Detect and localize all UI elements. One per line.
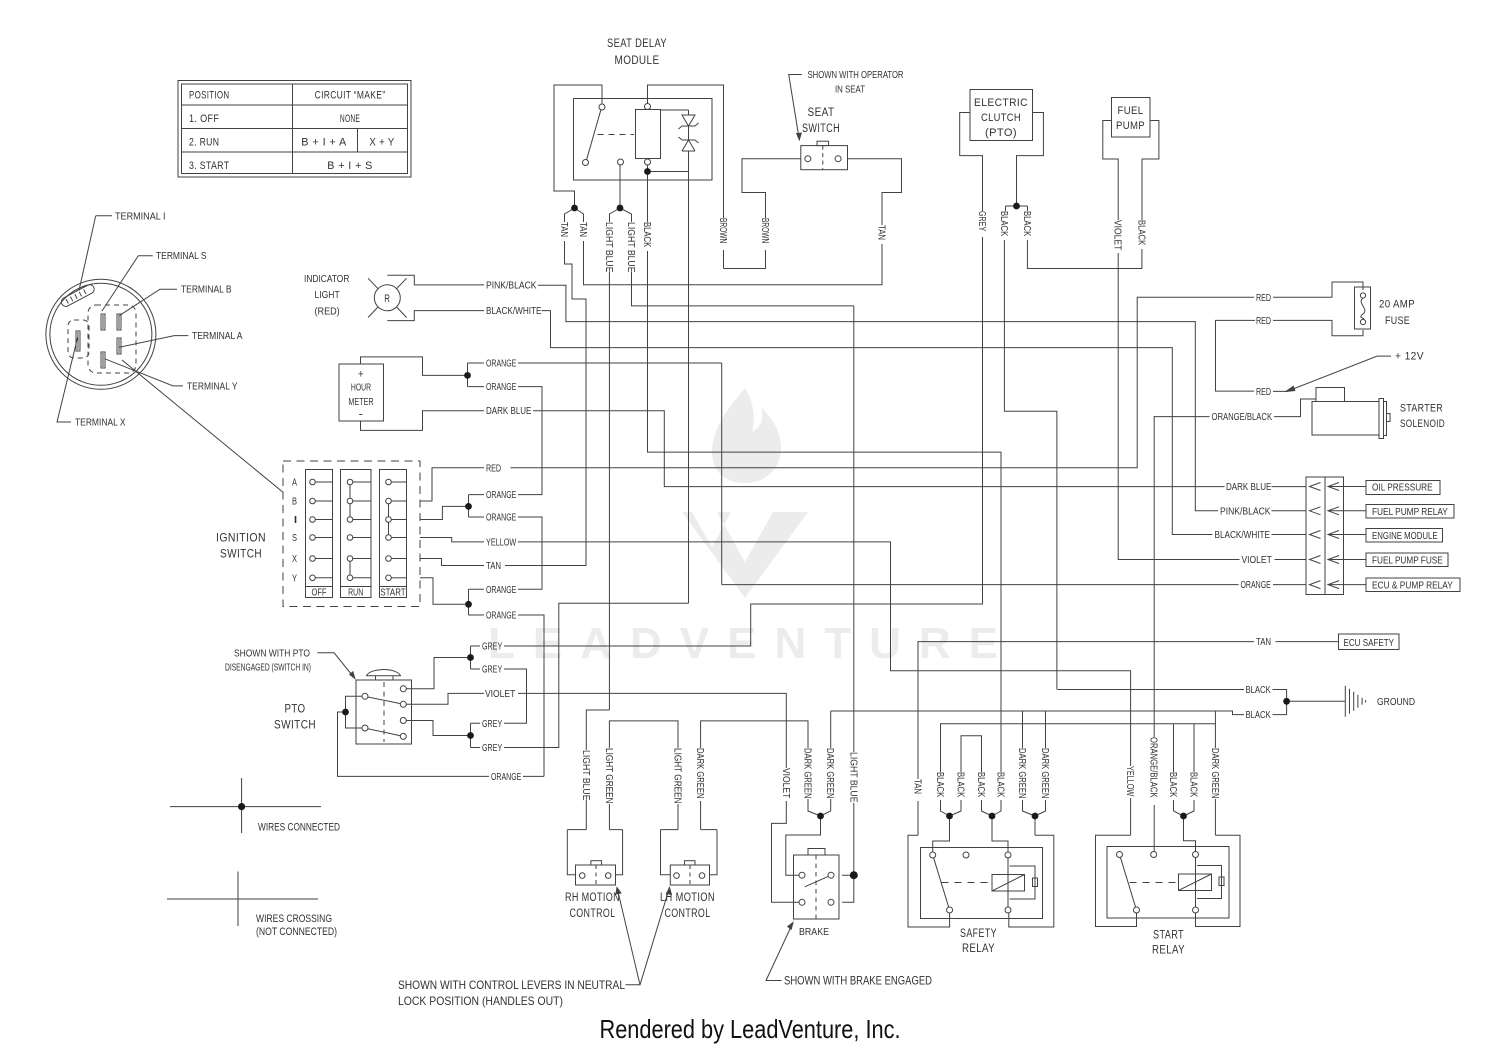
ignition OFF column: [306, 470, 333, 598]
svg-text:YELLOW: YELLOW: [486, 537, 517, 548]
svg-text:FUSE: FUSE: [1385, 315, 1410, 327]
wire zener bottom to grey junction: [648, 152, 689, 180]
wire coil bottom BLACK: [647, 165, 649, 222]
svg-text:SWITCH: SWITCH: [274, 718, 316, 732]
connector arrows: [1310, 483, 1344, 491]
wire clutch black 2 to fuel pump black: [1027, 240, 1142, 269]
safety relay coil: [992, 875, 1025, 892]
brake switch body: [794, 855, 840, 919]
terminal pins dashed housing: [88, 305, 136, 373]
GREY bus to seat module: [504, 180, 689, 748]
RED bus to fuse: [511, 297, 1255, 468]
svg-text:GREY: GREY: [976, 211, 987, 232]
wire RH light green to bracket: [609, 804, 622, 875]
svg-text:CIRCUIT “MAKE”: CIRCUIT “MAKE”: [315, 90, 386, 102]
svg-text:TERMINAL X: TERMINAL X: [75, 418, 126, 429]
wire seat switch left to BROWN loop: [742, 159, 801, 218]
electric clutch bracket: [960, 113, 983, 212]
svg-text:B: B: [292, 497, 297, 508]
wire module switch to TAN dot: [554, 85, 602, 208]
dark green riser start relay: [1214, 711, 1216, 835]
LIGHT BLUE bus from seat module: [632, 272, 854, 306]
svg-text:VIOLET: VIOLET: [485, 689, 515, 700]
wire brake dark green riser to ground bus: [830, 711, 832, 748]
RH motion control switch: [576, 865, 616, 885]
relay switch contacts U1: [599, 104, 605, 110]
svg-text:START: START: [1153, 928, 1184, 942]
ignition switch dashed box: [283, 461, 420, 607]
wire ignition X to TAN: [420, 559, 484, 566]
TAN pair elbows to dot: [565, 208, 584, 222]
svg-text:TAN: TAN: [558, 222, 569, 237]
svg-text:GREY: GREY: [482, 665, 503, 676]
svg-text:DARK GREEN: DARK GREEN: [1209, 748, 1220, 799]
svg-text:INDICATOR: INDICATOR: [304, 274, 349, 285]
svg-text:PTO: PTO: [285, 702, 306, 716]
svg-text:FUEL: FUEL: [1118, 105, 1144, 117]
ORANGE link hour meter to ignition: [518, 363, 722, 495]
terminal labels: [75, 211, 243, 428]
leader circle to ignition box: [122, 360, 283, 493]
brake leader SHOWN WITH BRAKE ENGAGED: [766, 923, 793, 981]
svg-text:YELLOW: YELLOW: [1124, 766, 1135, 797]
svg-text:RED: RED: [1256, 293, 1271, 304]
LIGHT BLUE pair elbows to dot: [610, 165, 632, 222]
wire VIOLET to brake lower-left: [772, 801, 800, 902]
svg-text:RED: RED: [1256, 316, 1271, 327]
relay coil box: [636, 110, 661, 159]
starter solenoid: [1316, 388, 1345, 402]
svg-text:GROUND: GROUND: [1377, 697, 1415, 708]
svg-text:VIOLET: VIOLET: [1112, 220, 1123, 250]
svg-text:SAFETY: SAFETY: [960, 926, 997, 940]
wire RH light blue riser: [586, 272, 609, 750]
svg-text:BLACK: BLACK: [641, 222, 652, 248]
TAN riser safety relay: [917, 801, 919, 835]
hour meter box: [339, 364, 384, 421]
svg-text:LIGHT GREEN: LIGHT GREEN: [603, 748, 614, 804]
svg-text:DARK GREEN: DARK GREEN: [802, 748, 813, 799]
svg-text:TAN: TAN: [1256, 637, 1271, 648]
wires crossing symbol: [167, 872, 318, 927]
svg-text:BLACK: BLACK: [1136, 220, 1147, 246]
svg-text:S: S: [292, 533, 297, 544]
svg-text:DARK GREEN: DARK GREEN: [1016, 748, 1027, 799]
svg-text:BLACK: BLACK: [1021, 211, 1032, 237]
svg-text:+ 12V: + 12V: [1395, 351, 1424, 363]
svg-text:BLACK: BLACK: [975, 772, 986, 798]
svg-text:X: X: [292, 554, 297, 565]
svg-text:BLACK/WHITE: BLACK/WHITE: [1215, 530, 1271, 541]
svg-text:RH MOTION: RH MOTION: [565, 890, 620, 904]
terminal X leader: [57, 337, 78, 422]
clutch black pair bar: [1006, 206, 1028, 211]
indicator light lamp: [374, 285, 400, 311]
svg-text:SWITCH: SWITCH: [220, 547, 262, 561]
svg-text:PINK/BLACK: PINK/BLACK: [486, 281, 537, 292]
svg-text:FUEL PUMP FUSE: FUEL PUMP FUSE: [1372, 555, 1443, 566]
control levers leader: [617, 888, 670, 985]
svg-text:X + Y: X + Y: [369, 137, 394, 149]
wire ignition Y to ORANGE pair: [420, 578, 484, 615]
svg-text:SHOWN WITH OPERATOR: SHOWN WITH OPERATOR: [808, 70, 904, 81]
svg-text:B + I + S: B + I + S: [327, 160, 372, 172]
ORANGE row riser and to connector: [722, 363, 1306, 585]
start relay outer bracket: [1096, 835, 1137, 926]
pin S: [101, 314, 105, 330]
svg-text:BROWN: BROWN: [759, 218, 770, 243]
svg-text:B + I + A: B + I + A: [301, 137, 347, 149]
safety relay outer bracket: [908, 835, 950, 927]
svg-text:LOCK POSITION (HANDLES OUT): LOCK POSITION (HANDLES OUT): [398, 994, 563, 1008]
svg-text:SOLENOID: SOLENOID: [1400, 418, 1445, 430]
DARK BLUE bus hour meter to connector: [533, 411, 1306, 487]
svg-text:ORANGE: ORANGE: [1241, 580, 1272, 591]
table text: [189, 90, 395, 173]
fuel pump relay box: [1366, 505, 1454, 519]
svg-text:PINK/BLACK: PINK/BLACK: [1220, 506, 1271, 517]
horizontal wire color labels left column: [482, 281, 542, 783]
PTO switch body: [356, 680, 412, 744]
svg-text:RELAY: RELAY: [962, 941, 995, 955]
dark green pair riser to ground bus: [1023, 711, 1046, 748]
svg-text:ORANGE: ORANGE: [486, 585, 517, 596]
svg-text:(NOT CONNECTED): (NOT CONNECTED): [256, 926, 337, 938]
electric clutch box: [970, 90, 1033, 141]
svg-text:NONE: NONE: [340, 113, 360, 125]
svg-text:ORANGE/BLACK: ORANGE/BLACK: [1148, 737, 1159, 798]
start relay black pair elbows: [1174, 800, 1196, 852]
oil pressure box: [1366, 481, 1440, 495]
svg-text:VIOLET: VIOLET: [780, 768, 791, 798]
svg-text:DARK GREEN: DARK GREEN: [1039, 748, 1050, 799]
start relay coil: [1179, 874, 1212, 891]
svg-text:SHOWN WITH CONTROL LEVERS IN N: SHOWN WITH CONTROL LEVERS IN NEUTRAL: [398, 978, 625, 992]
terminal Y leader: [105, 359, 183, 386]
svg-text:OIL PRESSURE: OIL PRESSURE: [1372, 483, 1433, 494]
svg-text:I: I: [293, 515, 298, 526]
TAN bus seat switch to module: [584, 241, 883, 285]
svg-text:ORANGE: ORANGE: [491, 772, 522, 783]
svg-text:A: A: [292, 478, 297, 489]
svg-text:R: R: [384, 293, 390, 305]
svg-text:GREY: GREY: [482, 743, 503, 754]
svg-text:LEADVENTURE: LEADVENTURE: [488, 619, 1016, 668]
engine module box: [1366, 529, 1443, 543]
ground symbol: [1345, 686, 1365, 717]
light green link RH to LH: [609, 721, 678, 748]
wire dark green pair to brake upper-left: [786, 799, 831, 875]
svg-text:LIGHT BLUE: LIGHT BLUE: [625, 222, 636, 273]
svg-text:CONTROL: CONTROL: [665, 906, 711, 920]
PTO button cap: [367, 670, 401, 676]
black pair jumper safety relay: [961, 736, 982, 772]
svg-text:GREY: GREY: [482, 719, 503, 730]
svg-text:3. START: 3. START: [189, 160, 229, 172]
wire ignition I to ORANGE pair: [420, 495, 484, 520]
GREY bus to electric clutch: [504, 237, 983, 646]
svg-text:TAN: TAN: [486, 561, 501, 572]
svg-text:+: +: [358, 369, 364, 381]
svg-text:(PTO): (PTO): [985, 127, 1017, 139]
pin A: [117, 338, 121, 354]
ignition letters: [292, 478, 406, 599]
wire clutch black 1 to ground: [1004, 240, 1057, 690]
key slot top-left: [60, 283, 96, 308]
seat switch leader SHOWN WITH OPERATOR IN SEAT: [789, 75, 802, 140]
wire PTO common to ORANGE: [338, 712, 490, 776]
key connector circle: [46, 279, 156, 389]
fuel pump fuse box: [1366, 553, 1448, 567]
svg-text:ORANGE: ORANGE: [486, 382, 517, 393]
ORANGE link Y to PTO: [518, 615, 544, 776]
wire ignition B to RED: [420, 468, 484, 501]
brake blade: [805, 876, 829, 886]
svg-text:DARK GREEN: DARK GREEN: [824, 748, 835, 799]
svg-text:BROWN: BROWN: [717, 218, 728, 243]
svg-text:TERMINAL A: TERMINAL A: [192, 331, 243, 342]
svg-text:BLACK: BLACK: [1188, 772, 1199, 798]
wire LH dark green to bracket: [701, 801, 717, 875]
wire fuel VIOLET to connector: [1118, 253, 1239, 560]
fuel pump box: [1112, 98, 1151, 138]
ecu and pump relay box: [1366, 578, 1460, 592]
svg-text:WIRES CONNECTED: WIRES CONNECTED: [258, 822, 340, 834]
svg-text:BLACK/WHITE: BLACK/WHITE: [486, 306, 542, 317]
ignition RUN column: [341, 470, 372, 598]
wires connected symbol: [170, 778, 321, 833]
svg-text:2. RUN: 2. RUN: [189, 137, 219, 149]
wire RH light blue to bracket: [567, 800, 586, 875]
svg-text:TAN: TAN: [577, 222, 588, 237]
wire PTO row1 to GREY pair: [406, 646, 480, 689]
svg-text:DARK GREEN: DARK GREEN: [694, 748, 705, 799]
svg-text:TAN: TAN: [912, 779, 923, 794]
svg-text:LIGHT BLUE: LIGHT BLUE: [580, 750, 591, 801]
svg-text:BLACK: BLACK: [934, 772, 945, 798]
svg-text:POSITION: POSITION: [189, 90, 229, 102]
svg-text:OFF: OFF: [311, 588, 326, 599]
seat switch body: [801, 146, 848, 170]
svg-text:IGNITION: IGNITION: [216, 531, 266, 545]
wire seat switch right to TAN: [848, 159, 902, 225]
dark green link LH to brake: [701, 721, 808, 748]
black bus safety to start relay: [941, 724, 1216, 772]
svg-text:CLUTCH: CLUTCH: [981, 112, 1021, 124]
ORANGE link rows I-Y: [518, 517, 542, 589]
YELLOW riser start relay: [1130, 798, 1132, 835]
svg-text:ORANGE: ORANGE: [486, 490, 517, 501]
BLACK bus seat module to safety relay: [648, 251, 1002, 772]
wire PTO row3 to GREY pair: [406, 721, 480, 748]
pin B: [117, 314, 121, 330]
svg-text:ELECTRIC: ELECTRIC: [974, 97, 1028, 109]
wire ORANGE/BLACK to solenoid: [1154, 417, 1209, 737]
svg-text:1. OFF: 1. OFF: [189, 113, 219, 125]
safety relay pin elbows: [933, 800, 961, 852]
svg-text:BLACK: BLACK: [998, 211, 1009, 237]
svg-text:DARK BLUE: DARK BLUE: [486, 406, 532, 417]
svg-text:TERMINAL Y: TERMINAL Y: [187, 381, 238, 392]
safety relay inner box: [921, 848, 1043, 919]
svg-text:ORANGE: ORANGE: [486, 359, 517, 370]
zener pair D1: [661, 110, 699, 152]
svg-text:ENGINE MODULE: ENGINE MODULE: [1372, 531, 1438, 542]
ignition START column: [380, 470, 407, 598]
svg-text:FUEL PUMP RELAY: FUEL PUMP RELAY: [1372, 507, 1448, 518]
VIOLET row to connector: [1275, 559, 1307, 561]
svg-text:LH MOTION: LH MOTION: [660, 890, 715, 904]
LH motion control switch: [670, 865, 709, 885]
PTO leader SHOWN WITH PTO DISENGAGED: [317, 653, 355, 679]
svg-text:TERMINAL I: TERMINAL I: [115, 211, 166, 222]
svg-text:SEAT DELAY: SEAT DELAY: [607, 36, 667, 50]
svg-text:DISENGAGED (SWITCH IN): DISENGAGED (SWITCH IN): [225, 662, 311, 673]
svg-text:VIOLET: VIOLET: [1242, 555, 1272, 566]
svg-text:ORANGE/BLACK: ORANGE/BLACK: [1212, 412, 1273, 423]
20 amp fuse: [1273, 282, 1363, 297]
svg-text:START: START: [380, 588, 405, 599]
terminal I leader: [79, 216, 112, 291]
fuel pump bracket: [1103, 121, 1118, 221]
svg-text:TERMINAL S: TERMINAL S: [156, 251, 207, 262]
wire LIGHT BLUE riser to brake: [842, 306, 854, 902]
pin Y: [101, 352, 105, 368]
svg-text:RED: RED: [486, 463, 501, 474]
PTO switch blades: [368, 697, 401, 736]
svg-text:SHOWN WITH BRAKE ENGAGED: SHOWN WITH BRAKE ENGAGED: [784, 974, 932, 988]
svg-text:SHOWN WITH PTO: SHOWN WITH PTO: [234, 648, 310, 659]
svg-text:DARK BLUE: DARK BLUE: [1226, 482, 1272, 493]
terminal B leader: [120, 289, 178, 315]
wire hour meter minus DARK BLUE: [361, 411, 485, 431]
svg-text:Y: Y: [292, 573, 297, 584]
svg-text:BLACK: BLACK: [1167, 772, 1178, 798]
terminal A leader: [120, 336, 189, 348]
wire ignition S to YELLOW: [420, 538, 484, 542]
svg-text:RED: RED: [1256, 387, 1271, 398]
svg-text:LIGHT BLUE: LIGHT BLUE: [847, 752, 858, 803]
svg-text:RUN: RUN: [348, 588, 363, 599]
table POSITION / CIRCUIT MAKE: [178, 81, 411, 178]
svg-text:BLACK: BLACK: [955, 772, 966, 798]
svg-text:TERMINAL B: TERMINAL B: [181, 285, 232, 296]
svg-text:RELAY: RELAY: [1152, 943, 1185, 957]
svg-text:MODULE: MODULE: [615, 53, 660, 67]
watermark flame logo: [682, 388, 808, 598]
svg-text:HOUR: HOUR: [351, 383, 371, 394]
svg-text:STARTER: STARTER: [1400, 403, 1443, 415]
svg-text:ECU & PUMP RELAY: ECU & PUMP RELAY: [1372, 580, 1453, 591]
ground wires: [1058, 690, 1287, 702]
wire LH light green to bracket: [661, 804, 679, 875]
svg-text:LIGHT GREEN: LIGHT GREEN: [672, 748, 683, 804]
svg-text:LIGHT: LIGHT: [315, 290, 340, 301]
PINK/BLACK bus indicator to connector: [538, 285, 1306, 511]
vertical wire labels: [558, 211, 1220, 804]
svg-text:CONTROL: CONTROL: [570, 906, 616, 920]
svg-text:GREY: GREY: [482, 642, 503, 653]
svg-text:METER: METER: [348, 397, 373, 408]
+12V leader: [1273, 356, 1391, 391]
svg-text:WIRES CROSSING: WIRES CROSSING: [256, 913, 332, 925]
svg-text:20 AMP: 20 AMP: [1379, 298, 1415, 310]
svg-text:ECU SAFETY: ECU SAFETY: [1344, 638, 1395, 649]
svg-text:IN SEAT: IN SEAT: [835, 85, 865, 96]
svg-text:SEAT: SEAT: [808, 105, 835, 119]
svg-text:ORANGE: ORANGE: [486, 513, 517, 524]
svg-text:ORANGE: ORANGE: [486, 611, 517, 622]
svg-text:BRAKE: BRAKE: [799, 927, 829, 938]
svg-text:BLACK: BLACK: [1246, 685, 1272, 696]
wire PTO left common: [346, 696, 363, 728]
pin X: [76, 331, 80, 351]
svg-text:SWITCH: SWITCH: [802, 121, 840, 135]
svg-text:Rendered by LeadVenture, Inc.: Rendered by LeadVenture, Inc.: [600, 1014, 901, 1044]
wire hour meter plus to ORANGE dot: [361, 357, 468, 376]
svg-text:LIGHT BLUE: LIGHT BLUE: [603, 222, 614, 273]
svg-text:BLACK: BLACK: [1246, 710, 1272, 721]
wire PTO row2 to VIOLET: [406, 693, 484, 704]
svg-text:(RED): (RED): [315, 306, 340, 317]
wire coil top to BROWN: [648, 85, 724, 218]
GREY link rows: [504, 669, 527, 723]
seat delay module box: [574, 99, 713, 181]
terminal S leader: [102, 256, 153, 311]
ORANGE/BLACK riser into start relay: [1153, 805, 1155, 852]
ecu safety box and TAN wire: [1339, 634, 1400, 650]
svg-text:-: -: [359, 409, 364, 421]
svg-text:PUMP: PUMP: [1116, 120, 1145, 132]
engine connector block: [1306, 477, 1325, 595]
BLACK/WHITE bus indicator to connector: [542, 311, 1307, 535]
YELLOW bus to start relay: [518, 542, 1131, 766]
VIOLET bus to brake: [518, 693, 786, 768]
start relay inner box: [1107, 847, 1229, 919]
svg-text:BLACK: BLACK: [995, 772, 1006, 798]
svg-text:TAN: TAN: [876, 225, 887, 240]
TAN link ignition to seat module: [505, 241, 586, 566]
